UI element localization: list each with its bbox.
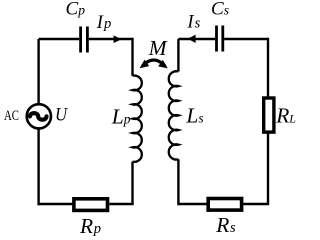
svg-text:Ip: Ip bbox=[96, 13, 111, 33]
wire: right loop right side below RL bbox=[267, 133, 269, 205]
capacitor Cp plates bbox=[81, 27, 88, 53]
svg-text:Cs: Cs bbox=[211, 0, 229, 20]
wire: right loop left side below coil bbox=[177, 159, 179, 205]
sine wave inside source bbox=[30, 113, 47, 120]
resistor RL (load) bbox=[264, 98, 274, 132]
wire: left loop bottom right segment bbox=[109, 203, 133, 205]
wire: right loop left side above coil bbox=[177, 39, 179, 72]
M arrowhead left bbox=[137, 60, 149, 72]
wire: below Lp to bottom-right corner of left loop bbox=[131, 162, 133, 204]
wire: Cs to top-right corner bbox=[224, 38, 268, 40]
wire: right loop top-left corner to Cs bbox=[178, 38, 215, 40]
svg-text:U: U bbox=[55, 103, 68, 124]
svg-text:Cp: Cp bbox=[66, 0, 86, 20]
resistor Rs bbox=[208, 199, 241, 211]
arrow Is current direction bbox=[188, 35, 196, 43]
wire: Cp right plate to top-right corner of left loop bbox=[89, 38, 133, 40]
arrow Ip current direction bbox=[114, 35, 122, 43]
wire: left loop top, source to Cp left plate bbox=[39, 38, 80, 40]
wire: left loop right side down to coil bbox=[131, 38, 133, 76]
AC source U circle bbox=[27, 104, 51, 128]
inductor Ls coil bbox=[169, 71, 179, 159]
svg-text:AC: AC bbox=[4, 106, 19, 123]
mutual inductance M arrow arc bbox=[142, 60, 165, 66]
wire: left loop bottom left segment bbox=[39, 203, 74, 205]
svg-text:Is: Is bbox=[186, 13, 200, 33]
M arrowhead right bbox=[158, 60, 170, 72]
wire: left loop left side above source bbox=[37, 39, 39, 104]
wire: right loop right side above RL bbox=[267, 38, 269, 98]
inductor Lp coil bbox=[133, 76, 142, 162]
capacitor Cs plates bbox=[217, 26, 223, 52]
resistor Rp bbox=[74, 199, 108, 211]
svg-text:M: M bbox=[148, 36, 168, 60]
wire: right loop bottom right segment bbox=[243, 203, 269, 205]
wire: right loop bottom left segment bbox=[178, 203, 208, 205]
wire: left loop left side below source bbox=[37, 129, 39, 205]
